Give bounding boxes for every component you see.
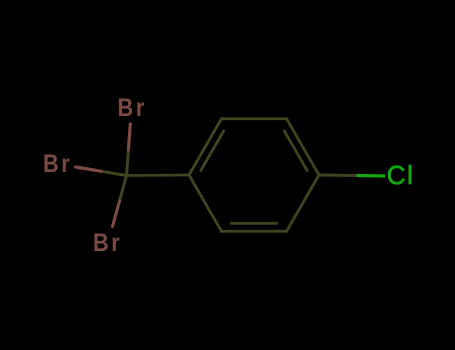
svg-text:Br: Br: [118, 94, 147, 122]
svg-text:Cl: Cl: [387, 160, 415, 190]
svg-text:Br: Br: [93, 229, 122, 257]
svg-text:Br: Br: [43, 150, 72, 178]
